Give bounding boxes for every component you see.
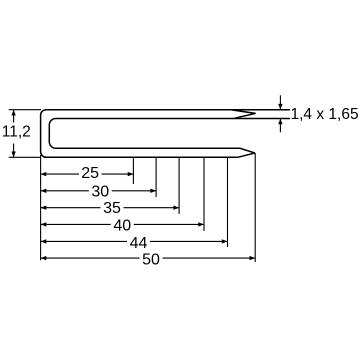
extension line 25 (132, 158, 134, 184)
dimension 11,2 upper arrow (13, 110, 15, 122)
extension line 35 (178, 158, 180, 214)
dimension 1,4 lower arrow (279, 119, 281, 132)
extension line 44 (227, 158, 229, 247)
dimension 11,2 lower arrow (13, 144, 15, 157)
svg-text:35: 35 (103, 200, 121, 217)
extension line 40 (203, 158, 205, 231)
svg-text:1,4 x 1,65: 1,4 x 1,65 (291, 106, 359, 123)
svg-text:11,2: 11,2 (2, 123, 31, 140)
dimension line 25 (41, 173, 134, 175)
dimension 11,2 top extension line (9, 109, 41, 111)
svg-text:30: 30 (91, 184, 109, 201)
extension line 30 (155, 158, 157, 197)
top leg chisel point (232, 110, 255, 118)
dimension line 40 (41, 223, 204, 225)
left extension line for leg dimensions (40, 155, 42, 260)
svg-text:50: 50 (142, 252, 160, 269)
dimension line 35 (41, 207, 180, 209)
svg-text:44: 44 (130, 235, 148, 252)
dimension line 30 (41, 190, 157, 192)
staple outer outline (41, 110, 290, 158)
dimension line 44 (41, 240, 228, 242)
dimension line 50 (41, 257, 256, 259)
svg-text:25: 25 (81, 165, 99, 182)
dimension 11,2 bottom extension line (9, 156, 41, 158)
svg-text:40: 40 (113, 218, 131, 235)
extension line 50 from bottom leg tip (254, 153, 256, 262)
dimension 1,4 upper arrow (279, 95, 281, 109)
staple inner outline (49, 119, 290, 154)
